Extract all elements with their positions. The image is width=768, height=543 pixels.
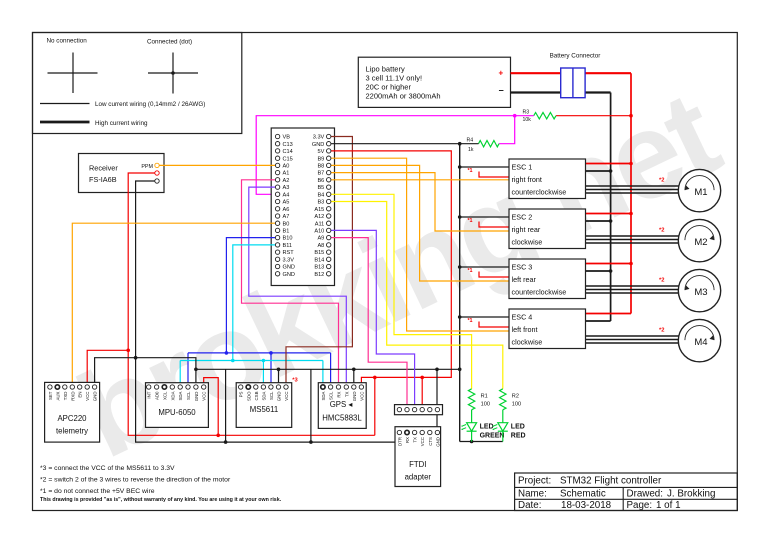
svg-text:*2: *2 xyxy=(659,328,664,334)
svg-text:A8: A8 xyxy=(317,243,324,249)
FTDI header connector xyxy=(395,405,443,415)
wire SDA to MPU-6050 xyxy=(179,361,181,388)
wire ESC2 BEC 5V stub (not connected) xyxy=(467,218,509,227)
wire ESC1 motor phases xyxy=(586,178,679,194)
wire MCU 5V down xyxy=(331,151,451,387)
wire SCL to GPS xyxy=(330,353,332,387)
receiver pins xyxy=(155,163,159,183)
svg-text:B7: B7 xyxy=(317,171,324,177)
svg-text:M4: M4 xyxy=(694,337,707,348)
wire ground rail riser A xyxy=(225,369,227,442)
wire receiver 5V down xyxy=(126,173,374,437)
wire 5V rail to MPU VCC xyxy=(204,378,219,436)
svg-text:adapter: adapter xyxy=(405,473,432,482)
wire ESC3 power black xyxy=(586,269,613,273)
wire B4 to R1 xyxy=(331,194,472,388)
svg-text:TX: TX xyxy=(344,391,349,397)
svg-text:SCL: SCL xyxy=(329,391,334,400)
wire ESC3 BEC 5V stub (not connected) xyxy=(467,268,509,277)
svg-text:Date:: Date: xyxy=(518,500,541,511)
svg-text:B4: B4 xyxy=(317,192,324,198)
svg-text:RED: RED xyxy=(511,433,526,440)
svg-text:PS: PS xyxy=(239,391,244,397)
wire ESC4 motor phases xyxy=(586,328,679,344)
svg-text:FS-IA6B: FS-IA6B xyxy=(89,175,117,184)
svg-text:B5: B5 xyxy=(317,185,324,191)
wire ground to GPS GND xyxy=(353,369,355,387)
svg-text:B3: B3 xyxy=(317,200,324,206)
legend: low current wiring sample xyxy=(40,101,205,108)
svg-text:A0: A0 xyxy=(283,164,290,170)
svg-text:B0: B0 xyxy=(283,221,290,227)
legend: high current wiring sample xyxy=(40,120,148,127)
wire FTDI header VCC xyxy=(421,377,423,409)
svg-text:INT: INT xyxy=(147,391,152,398)
svg-text:GND: GND xyxy=(283,272,295,278)
svg-text:*2: *2 xyxy=(659,278,664,284)
wire ESC2 motor phases xyxy=(586,228,679,244)
svg-text:TX: TX xyxy=(413,437,418,443)
svg-text:A9: A9 xyxy=(317,236,324,242)
svg-text:+: + xyxy=(499,69,504,78)
motor M4 xyxy=(678,319,720,361)
svg-text:M1: M1 xyxy=(694,187,707,198)
svg-text:RXD: RXD xyxy=(70,392,75,401)
svg-text:ESC 3: ESC 3 xyxy=(512,263,533,272)
wire ground rail riser B xyxy=(310,369,312,442)
wire B8 to ESC3 signal xyxy=(331,165,509,281)
wire GND branch to MPU GND xyxy=(136,358,198,387)
svg-text:AD0: AD0 xyxy=(155,391,160,400)
svg-text:2200mAh or 3800mAh: 2200mAh or 3800mAh xyxy=(366,92,441,101)
svg-text:B15: B15 xyxy=(314,250,324,256)
svg-text:*1: *1 xyxy=(467,318,472,324)
wire B10 to I2C SCL rail xyxy=(225,238,276,355)
GPS with HMC5883L compass xyxy=(318,383,366,429)
svg-text:*3 = connect the VCC of the MS: *3 = connect the VCC of the MS5611 to 3.… xyxy=(40,465,175,472)
svg-text:clockwise: clockwise xyxy=(512,238,543,247)
svg-text:Lipo battery: Lipo battery xyxy=(366,65,405,74)
wire 5V to bottom rail xyxy=(374,377,376,435)
svg-text:*2 = switch 2 of the 3 wires t: *2 = switch 2 of the 3 wires to reverse … xyxy=(40,477,231,484)
svg-text:R3: R3 xyxy=(523,110,530,116)
svg-text:ESC 1: ESC 1 xyxy=(512,163,533,172)
svg-text:PPM: PPM xyxy=(141,164,153,170)
wire ESC2 power red xyxy=(586,212,633,216)
svg-text:RX: RX xyxy=(337,391,342,397)
FTDI adapter xyxy=(395,427,441,487)
wire ESC2 power black xyxy=(586,219,613,223)
svg-text:APC220: APC220 xyxy=(57,414,87,423)
wire SCL to MPU-6050 xyxy=(187,353,189,387)
svg-text:100: 100 xyxy=(481,402,490,408)
note *3 xyxy=(40,465,175,472)
wire 5V branch to APC220 VCC xyxy=(87,350,128,386)
svg-text:A1: A1 xyxy=(283,171,290,177)
svg-text:B13: B13 xyxy=(314,265,324,271)
black ground bus vertical xyxy=(610,93,612,322)
wire ESC1 ground stub xyxy=(458,165,509,169)
svg-text:RX: RX xyxy=(405,437,410,443)
wire GND branch to APC220 GND xyxy=(95,358,136,387)
svg-text:B14: B14 xyxy=(314,257,324,263)
svg-text:3.3V: 3.3V xyxy=(283,257,295,263)
svg-text:Name:: Name: xyxy=(518,488,547,499)
svg-text:A11: A11 xyxy=(315,221,325,227)
note *1 xyxy=(40,488,155,495)
svg-text:right rear: right rear xyxy=(512,225,541,234)
note *2 xyxy=(40,477,231,484)
svg-text:B8: B8 xyxy=(317,164,324,170)
ground rail above sensors xyxy=(196,368,460,372)
wire A10 to FTDI TX xyxy=(331,230,415,409)
svg-text:Page:: Page: xyxy=(627,500,653,511)
svg-text:ESC 2: ESC 2 xyxy=(512,213,533,222)
svg-text:5V: 5V xyxy=(317,149,324,155)
svg-text:GND: GND xyxy=(194,392,199,402)
wire divider node to A4 and R4 xyxy=(256,114,534,194)
svg-text:10k: 10k xyxy=(523,117,532,123)
svg-text:R1: R1 xyxy=(481,394,488,400)
motor M1 xyxy=(678,169,720,211)
LED red D2 xyxy=(493,410,526,442)
svg-text:VCC: VCC xyxy=(420,437,425,446)
wire B7 to ESC2 signal xyxy=(331,173,509,231)
svg-text:R2: R2 xyxy=(512,394,519,400)
svg-text:This drawing is provided "as i: This drawing is provided "as is", withou… xyxy=(40,497,282,503)
wire B6 to ESC1 signal xyxy=(331,179,509,181)
svg-text:*3: *3 xyxy=(292,378,298,384)
svg-text:M2: M2 xyxy=(694,237,707,248)
wire B0 to APC220 RXD xyxy=(72,223,275,386)
motor M3 xyxy=(678,269,720,311)
MCU U1 STM32 board xyxy=(271,128,334,286)
wire ESC1 power black xyxy=(586,169,613,173)
wire ESC2 ground stub xyxy=(458,215,509,219)
wire B9 to ESC4 signal xyxy=(331,158,509,331)
svg-text:A2: A2 xyxy=(283,178,290,184)
svg-text:3 cell 11.1V only!: 3 cell 11.1V only! xyxy=(366,74,423,83)
svg-text:VCC: VCC xyxy=(359,392,364,401)
svg-text:XCL: XCL xyxy=(162,391,167,400)
wire A9 to FTDI RX xyxy=(331,238,407,410)
wire ESC4 power red xyxy=(586,313,632,315)
wire A2 to GPS RX xyxy=(242,180,339,387)
svg-text:A3: A3 xyxy=(283,185,290,191)
wire SCL to MS5611 xyxy=(270,353,272,387)
svg-text:left front: left front xyxy=(512,325,538,334)
svg-text:GND: GND xyxy=(435,437,440,447)
APC220 telemetry module xyxy=(45,382,100,442)
svg-text:Project:: Project: xyxy=(518,476,551,487)
svg-text:RST: RST xyxy=(283,250,295,256)
wire SDA to MS5611 xyxy=(262,361,264,388)
svg-text:VCC: VCC xyxy=(85,392,90,401)
svg-text:*1 = do not connect the +5V BE: *1 = do not connect the +5V BEC wire xyxy=(40,488,155,495)
resistor R2 100 xyxy=(500,389,522,410)
svg-text:*1: *1 xyxy=(467,218,472,224)
svg-text:MS5611: MS5611 xyxy=(250,405,278,414)
svg-text:A6: A6 xyxy=(283,207,290,213)
svg-text:VCC: VCC xyxy=(202,392,207,401)
svg-text:GND: GND xyxy=(93,392,98,402)
svg-text:telemetry: telemetry xyxy=(56,427,88,436)
svg-text:B9: B9 xyxy=(317,156,324,162)
svg-text:High current wiring: High current wiring xyxy=(95,120,148,127)
resistor R1 100 xyxy=(468,389,490,410)
legend box xyxy=(33,33,242,134)
wire B3 to R2 xyxy=(331,202,503,389)
legend: connected-dot symbol xyxy=(147,39,198,94)
wire A3 to GPS TX xyxy=(249,187,346,387)
receiver FS-IA6B xyxy=(79,154,165,193)
wire B11 to I2C SDA rail xyxy=(231,245,275,362)
svg-text:*2: *2 xyxy=(659,228,664,234)
svg-text:GND: GND xyxy=(312,142,324,148)
barometer MS5611 xyxy=(236,378,298,428)
svg-text:VCC: VCC xyxy=(284,392,289,401)
battery BT1 Lipo xyxy=(358,57,510,107)
svg-text:DTR: DTR xyxy=(397,437,402,446)
battery connector J1 xyxy=(550,53,601,98)
svg-text:A5: A5 xyxy=(283,200,290,206)
wire battery - to black bus xyxy=(511,91,611,93)
svg-text:18-03-2018: 18-03-2018 xyxy=(561,500,612,511)
wire 3.3V to MS5611 VCC xyxy=(286,137,352,388)
svg-text:Connected (dot): Connected (dot) xyxy=(147,39,192,46)
red power bus vertical xyxy=(630,73,632,313)
svg-text:GND: GND xyxy=(352,392,357,402)
svg-text:C14: C14 xyxy=(283,149,293,155)
note disclaimer xyxy=(40,497,282,503)
svg-text:C13: C13 xyxy=(283,142,293,148)
svg-text:SDA: SDA xyxy=(261,391,266,400)
svg-text:J. Brokking: J. Brokking xyxy=(667,488,715,499)
svg-text:Battery Connector: Battery Connector xyxy=(550,53,601,60)
svg-text:A7: A7 xyxy=(283,214,290,220)
wire ESC1 power red xyxy=(586,162,633,166)
svg-text:A10: A10 xyxy=(314,229,324,235)
wire ESC4 ground stub xyxy=(458,315,509,319)
svg-text:1 of 1: 1 of 1 xyxy=(656,500,681,511)
svg-text:clockwise: clockwise xyxy=(512,338,543,347)
svg-text:ESC 4: ESC 4 xyxy=(512,313,533,322)
svg-text:*1: *1 xyxy=(467,168,472,174)
svg-text:3.3V: 3.3V xyxy=(313,135,325,141)
svg-text:−: − xyxy=(499,86,504,96)
svg-text:SCL: SCL xyxy=(186,391,191,400)
svg-text:20C or higher: 20C or higher xyxy=(366,83,412,92)
wire ESC3 motor phases xyxy=(586,278,679,294)
svg-text:*2: *2 xyxy=(659,178,664,184)
svg-text:TXD: TXD xyxy=(63,392,68,401)
ESC 4 xyxy=(509,309,586,349)
wire R3 to red bus xyxy=(556,114,633,118)
svg-text:GPS ◂: GPS ◂ xyxy=(330,400,353,409)
svg-text:CSB: CSB xyxy=(254,391,259,400)
svg-text:GND: GND xyxy=(283,265,295,271)
svg-text:SDA: SDA xyxy=(321,391,326,400)
ESC 1 xyxy=(509,159,586,199)
svg-text:GREEN: GREEN xyxy=(480,433,505,440)
svg-text:LED: LED xyxy=(511,424,525,431)
svg-text:M3: M3 xyxy=(694,287,707,298)
svg-text:XDA: XDA xyxy=(170,391,175,400)
svg-text:left rear: left rear xyxy=(512,275,537,284)
svg-text:B11: B11 xyxy=(283,243,293,249)
legend: no-connection symbol xyxy=(47,38,98,94)
wire ESC1 BEC 5V stub (not connected) xyxy=(467,168,509,177)
title block xyxy=(515,473,738,511)
wire ESC3 ground stub xyxy=(458,265,509,269)
motor M2 xyxy=(678,219,720,261)
wire ground bus to LED rail xyxy=(460,440,503,444)
svg-text:Schematic: Schematic xyxy=(560,488,606,499)
wire ESC4 BEC 5V stub (not connected) xyxy=(467,318,509,327)
svg-text:Receiver: Receiver xyxy=(89,164,118,173)
svg-text:VB: VB xyxy=(283,135,291,141)
I2C SCL rail xyxy=(188,351,331,355)
svg-text:LED: LED xyxy=(480,424,494,431)
wire ESC4 power black xyxy=(586,320,611,322)
wire SDA to GPS xyxy=(322,361,324,388)
svg-text:FTDI: FTDI xyxy=(409,460,426,469)
svg-text:*1: *1 xyxy=(467,268,472,274)
svg-text:1k: 1k xyxy=(468,147,474,153)
wire MCU GND to bus and R4 xyxy=(331,142,479,146)
IMU MPU-6050 xyxy=(146,383,209,428)
svg-text:CTS: CTS xyxy=(428,437,433,446)
svg-text:EN: EN xyxy=(78,392,83,398)
wire ESC3 power red xyxy=(586,262,633,266)
svg-text:100: 100 xyxy=(512,402,521,408)
svg-text:MPU-6050: MPU-6050 xyxy=(158,408,196,417)
svg-text:No connection: No connection xyxy=(47,38,88,45)
wire receiver PPM to A0 xyxy=(159,164,275,166)
svg-text:GND: GND xyxy=(277,392,282,402)
svg-text:B12: B12 xyxy=(314,272,324,278)
ESC 2 xyxy=(509,209,586,249)
svg-text:A15: A15 xyxy=(314,207,324,213)
svg-text:B1: B1 xyxy=(283,229,290,235)
svg-text:counterclockwise: counterclockwise xyxy=(512,288,567,297)
black signal-ground bus xyxy=(458,144,462,442)
resistor R3 10k xyxy=(523,110,557,124)
svg-text:SDO: SDO xyxy=(246,391,251,401)
wire ground to FTDI header GND xyxy=(436,369,438,442)
svg-text:B6: B6 xyxy=(317,178,324,184)
svg-text:SET: SET xyxy=(48,391,53,400)
svg-text:A12: A12 xyxy=(314,214,324,220)
wire receiver GND down xyxy=(134,181,437,444)
svg-text:right front: right front xyxy=(512,175,542,184)
MCU pin circles xyxy=(275,134,331,276)
LED green D1 xyxy=(461,410,504,442)
wire ground to MS5611 GND xyxy=(278,369,280,387)
svg-text:Drawed:: Drawed: xyxy=(627,488,663,499)
svg-text:B10: B10 xyxy=(283,236,293,242)
I2C SDA rail xyxy=(180,359,323,363)
ESC 3 xyxy=(509,259,586,299)
wire battery + to red bus xyxy=(511,72,632,74)
svg-text:SCL: SCL xyxy=(269,391,274,400)
svg-text:STM32 Flight controller: STM32 Flight controller xyxy=(560,476,662,487)
svg-text:SDA: SDA xyxy=(178,391,183,400)
svg-text:HMC5883L: HMC5883L xyxy=(322,414,362,423)
svg-text:R4: R4 xyxy=(467,138,474,144)
svg-text:counterclockwise: counterclockwise xyxy=(512,188,567,197)
svg-text:AUX: AUX xyxy=(55,391,60,400)
svg-text:C15: C15 xyxy=(283,156,293,162)
svg-text:Low current wiring (0,14mm2 /: Low current wiring (0,14mm2 / 26AWG) xyxy=(95,101,205,108)
svg-text:A4: A4 xyxy=(283,192,290,198)
resistor R4 1k xyxy=(467,138,500,154)
